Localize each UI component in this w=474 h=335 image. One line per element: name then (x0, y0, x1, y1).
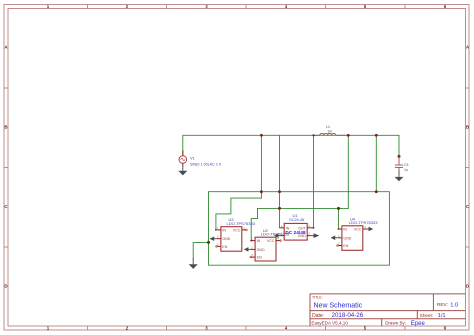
svg-text:IN: IN (222, 228, 226, 232)
wire L1 right to C1 (314, 135, 400, 156)
svg-text:V1: V1 (190, 155, 196, 160)
svg-text:EN: EN (343, 244, 348, 248)
svg-text:EasyEDA V5.4.10: EasyEDA V5.4.10 (311, 321, 348, 326)
svg-text:DC 24/48: DC 24/48 (285, 230, 306, 236)
svg-text:1m: 1m (327, 130, 332, 134)
wire mid rail y208 (258, 207, 349, 209)
svg-text:VCC: VCC (354, 228, 362, 232)
wire stair to U2 IN (251, 208, 257, 240)
U1 pin names (286, 226, 307, 238)
svg-text:D: D (4, 284, 7, 289)
svg-text:LDO-TPS76333: LDO-TPS76333 (349, 220, 378, 225)
wire loop rectangle (209, 192, 390, 266)
capacitor C1 (395, 156, 403, 171)
svg-text:EN: EN (257, 256, 262, 260)
regulator U4 LDO-TPS76333 (337, 225, 368, 250)
wire vertical top to loop x376 (375, 135, 377, 191)
junction U2 IN pin (250, 240, 252, 242)
ground at U4 GND pin (331, 236, 338, 241)
svg-text:Sheet:: Sheet: (420, 313, 433, 318)
ground at U4 VCC pin (367, 227, 373, 231)
V1 labels (190, 155, 221, 166)
svg-text:SIN(0 1 50) AC 1 0: SIN(0 1 50) AC 1 0 (190, 162, 221, 166)
ground at U3 GND pin (210, 236, 217, 241)
junction U3 IN pin (215, 229, 217, 231)
title block (310, 294, 466, 326)
svg-text:Drawn By:: Drawn By: (385, 321, 406, 326)
svg-text:D: D (466, 284, 469, 289)
svg-text:C1: C1 (404, 163, 409, 167)
svg-text:TITLE:: TITLE: (312, 296, 323, 300)
wire vertical x280 to U1 IN (279, 135, 281, 228)
svg-text:LDO-TPS76333: LDO-TPS76333 (227, 221, 256, 226)
svg-text:2018-04-26: 2018-04-26 (332, 312, 364, 319)
U3 pin names (222, 228, 240, 249)
svg-text:OUT: OUT (298, 226, 306, 230)
U2 pins IN/GND/EN/VCC (251, 241, 281, 258)
svg-text:B: B (4, 125, 7, 130)
svg-text:EN: EN (222, 245, 227, 249)
U2 labels (261, 228, 290, 237)
regulator U2 LDO-TPS76333 (250, 237, 282, 261)
svg-text:VCC: VCC (233, 228, 241, 232)
wire vertical to U1 OUT (313, 135, 315, 228)
junction loop rail at x279 (278, 190, 281, 193)
svg-text:1.0: 1.0 (450, 302, 458, 308)
U2 pin names (257, 239, 275, 260)
svg-text:1/1: 1/1 (438, 313, 446, 319)
junction U4 IN pin (338, 228, 340, 230)
U4 pin numbers 1-4 (338, 225, 366, 246)
junction mid rail at x279 (278, 207, 281, 210)
wire stair to U3 IN (216, 198, 262, 230)
svg-text:Epee: Epee (411, 321, 426, 327)
U3 pins IN/GND/EN/VCC (217, 230, 247, 247)
U1 labels (289, 213, 304, 222)
ground at left branch (189, 258, 198, 269)
junction mid rail at x338 (337, 207, 340, 210)
U3 pin numbers 1-4 (217, 226, 245, 247)
U4 pins IN/GND/EN/VCC (338, 229, 368, 246)
svg-text:VCC: VCC (267, 239, 275, 243)
svg-text:IN: IN (257, 239, 261, 243)
svg-text:DC24-48: DC24-48 (289, 218, 304, 222)
ground at U1 right GND pin (311, 233, 319, 238)
wire gnd branch left (193, 242, 208, 258)
junction loop rail at x261 (260, 190, 263, 193)
svg-text:IN: IN (343, 228, 347, 232)
junction U1 OUT pin (313, 227, 315, 229)
junction loop rail at x376 (375, 190, 378, 193)
U2 pin numbers 1-4 (251, 237, 279, 258)
L1 labels (326, 124, 333, 133)
title block texts (311, 296, 448, 326)
svg-text:L1: L1 (326, 124, 330, 129)
ground at V1 (178, 166, 187, 175)
svg-text:IN: IN (286, 226, 290, 230)
junction top rail at x348 (347, 134, 350, 137)
junction top rail at x261 (260, 134, 263, 137)
U4 pin names (343, 228, 361, 249)
svg-text:REV:: REV: (437, 302, 448, 308)
svg-text:GND: GND (343, 236, 351, 240)
svg-text:GND: GND (257, 248, 265, 252)
ground at C1 (395, 171, 404, 182)
wire top rail V1 to L1 (183, 135, 314, 156)
svg-text:1u: 1u (404, 168, 408, 172)
wire branch to U4 IN (338, 208, 340, 229)
svg-text:B: B (466, 125, 469, 130)
svg-text:Date:: Date: (312, 313, 324, 319)
ground at U1 left GND pin (274, 233, 281, 238)
junction C1 top pin (398, 155, 401, 158)
U4 labels (349, 216, 378, 225)
voltage source V1 (179, 151, 187, 167)
svg-text:GND: GND (222, 237, 230, 241)
C1 labels (404, 163, 409, 172)
inductor L1 (315, 133, 348, 135)
U1 pins IN/OUT/GND/GND (280, 228, 314, 236)
junction left vertical gnd branch (207, 241, 210, 244)
dc converter U1 DC24-48 (280, 223, 314, 240)
U1 pin numbers 1-4 (281, 224, 311, 236)
regulator U3 LDO-TPS76333 (216, 226, 248, 251)
wire vertical x261 through loop top (260, 135, 262, 198)
svg-text:New Schematic: New Schematic (314, 303, 363, 310)
junction top rail at L1 left pin (312, 134, 314, 136)
U3 labels (227, 217, 256, 226)
ground at U2 GND pin (244, 247, 251, 252)
wire vertical top to mid rail x348 (347, 135, 349, 208)
junction top rail at x376 (375, 134, 378, 137)
